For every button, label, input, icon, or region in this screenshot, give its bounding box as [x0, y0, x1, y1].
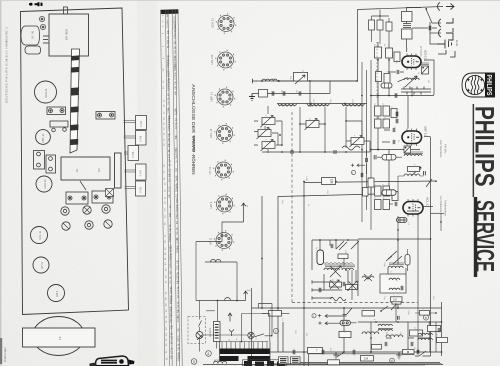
resistor R18 — [375, 200, 382, 210]
table column rules — [161, 10, 183, 366]
node y152 c — [324, 151, 326, 153]
node y152 b — [299, 151, 301, 153]
IF transformer box — [380, 274, 406, 293]
wire capsule leads — [340, 316, 357, 323]
core antenna transformer — [403, 24, 411, 28]
svg-text:443 kHz: 443 kHz — [444, 144, 448, 154]
node coil row c — [344, 103, 346, 105]
resistor R24 — [269, 311, 282, 317]
wire B+ right border — [441, 302, 443, 356]
tube socket UM4 pinout — [209, 194, 235, 215]
svg-text:2: 2 — [245, 205, 249, 207]
resistor R16 — [375, 186, 382, 196]
inductor L5 RF coil b — [307, 104, 329, 106]
svg-text:d: d — [391, 359, 393, 363]
tube U2 UBF11 IF-detector — [402, 126, 428, 146]
ANSCHLUESSE DER VALVO-ROEHREN caption — [191, 84, 196, 175]
svg-text:10p: 10p — [169, 227, 172, 232]
circled terminal d — [390, 358, 395, 363]
trimmer C31 band a — [257, 128, 272, 140]
svg-text:UY 11: UY 11 — [40, 261, 44, 269]
inductor L3 input wave trap — [262, 79, 277, 81]
svg-text:W 19555: W 19555 — [419, 46, 423, 57]
antenna jack A1 — [438, 3, 454, 11]
node y152 d — [345, 151, 347, 153]
svg-text:UCL 11: UCL 11 — [209, 128, 213, 138]
wire U3 left stub — [389, 203, 393, 205]
node y322 d — [441, 321, 443, 323]
svg-text:0,25: 0,25 — [174, 75, 177, 80]
svg-text:UBF 11: UBF 11 — [210, 92, 214, 102]
node cap join — [278, 80, 280, 82]
svg-text:10p: 10p — [176, 177, 179, 182]
terminal fb row3 — [312, 296, 318, 299]
svg-text:2M: 2M — [323, 262, 325, 265]
node u3 bottom — [397, 229, 399, 231]
mounting bolts — [39, 16, 45, 29]
svg-text:zur Tonblende: zur Tonblende — [439, 196, 443, 213]
svg-text:0,3M: 0,3M — [168, 109, 171, 114]
tube socket UCH21 pinout — [210, 50, 236, 71]
svg-text:300: 300 — [167, 39, 170, 44]
tube UBF11 on chassis — [36, 130, 51, 145]
transformer T1 windings — [220, 342, 268, 349]
tube U3 UCL11 output — [403, 197, 430, 217]
node y322 c — [429, 321, 431, 323]
wire coil row bus — [277, 103, 367, 105]
capacitor C29 — [361, 173, 363, 177]
node x362 y95 — [361, 95, 363, 97]
svg-text:2M: 2M — [167, 20, 170, 23]
resistor R10 — [375, 106, 382, 116]
svg-text:0,3M: 0,3M — [170, 289, 173, 294]
small X box component — [106, 189, 114, 197]
tuning capacitor block — [61, 153, 121, 190]
terminal antenna input bar — [253, 79, 257, 83]
wire vertical x366 — [366, 70, 368, 210]
svg-text:1M: 1M — [176, 232, 179, 235]
ganged tuning dashed link — [291, 112, 293, 303]
resistor R28 — [410, 330, 423, 336]
wire x445 drop — [435, 322, 437, 352]
trimmer C30 wave trap — [261, 116, 276, 128]
capacitor C16 bottom — [417, 350, 419, 354]
capacitor C18 — [411, 342, 413, 346]
wire mid vertical x300 — [299, 107, 301, 152]
terminal strip blocks — [244, 361, 285, 366]
wire bottom edge double — [270, 364, 442, 366]
resistor R14 — [383, 119, 390, 128]
resistor R8 screen — [376, 72, 382, 82]
wire IF vertical b — [407, 96, 409, 129]
svg-text:20p: 20p — [170, 294, 173, 299]
svg-text:10p: 10p — [167, 54, 170, 59]
tube socket UCH21 pinout — [211, 13, 237, 34]
capacitor trimmer C2 box — [294, 73, 308, 82]
capacitor C26 — [299, 91, 301, 95]
wire left vertical x251 — [251, 288, 253, 366]
transformer T1 laminations — [220, 349, 271, 362]
capacitor C27 dual electrolytic — [397, 218, 408, 223]
circled terminal b — [423, 315, 428, 320]
wire bottom rail y362 — [300, 362, 440, 364]
resistor URDOX ballast — [214, 322, 221, 342]
node mid trim l — [299, 123, 301, 125]
wire corner x258','M258.3,308.4 v-4.9 — [258, 304, 272, 336]
dial lamp dashed box — [188, 317, 205, 344]
node x304 y196 — [303, 195, 305, 197]
capacitor C14 bottom — [322, 350, 324, 354]
svg-text:70p: 70p — [174, 80, 177, 85]
terminal fb row2 — [312, 288, 318, 291]
svg-text:1M: 1M — [329, 348, 331, 351]
svg-text:zum Sperrkreis: zum Sperrkreis — [439, 140, 443, 158]
core L11 — [389, 263, 404, 265]
svg-text:URDOX: URDOX — [208, 327, 212, 337]
capacitor C11 tone — [319, 288, 321, 292]
resistor R43 vertical capsule — [405, 255, 410, 266]
svg-text:25p: 25p — [169, 252, 172, 257]
resistor R11 — [383, 106, 390, 116]
svg-text:S 407: S 407 — [140, 120, 143, 127]
wire fb drop links — [330, 240, 356, 280]
svg-text:100p: 100p — [176, 207, 179, 213]
wire x237 drop — [236, 262, 238, 301]
rectifier tube AZ1 (side view) — [21, 26, 40, 45]
terminal fb row1 — [312, 280, 318, 283]
inductor L7 osc coil — [404, 78, 419, 80]
svg-text:25p: 25p — [176, 203, 179, 208]
wire vertical x362 — [361, 62, 363, 222]
wire socket heater down — [195, 242, 197, 301]
switch S10 top — [343, 308, 353, 315]
wire af line — [370, 149, 420, 151]
node rail b — [277, 307, 279, 309]
ground bottom 2 — [396, 352, 402, 359]
wire left vertical x278 — [277, 196, 279, 352]
tube socket UY11 pinout — [208, 160, 234, 181]
node rail e — [397, 307, 399, 309]
node fb a — [335, 239, 337, 241]
node det frame — [430, 238, 432, 240]
coil bracket pair — [34, 121, 69, 173]
switch S4 — [386, 251, 397, 261]
node x371 y150 — [370, 149, 372, 151]
inductor heater winding b — [211, 259, 221, 262]
resistor R47 segmented capsule — [382, 155, 396, 161]
wire earth lead — [430, 22, 437, 44]
trimmer capacitors row 1 — [61, 205, 110, 215]
switch S3a — [336, 241, 347, 250]
tube UCL11 on chassis — [31, 227, 48, 244]
wire r42 leads — [415, 312, 436, 314]
switch S12 osc — [398, 78, 408, 82]
svg-text:300: 300 — [175, 167, 178, 172]
dial lamp LP1 — [196, 332, 203, 340]
wire feedback inner a — [311, 240, 313, 270]
resistor R34 fb — [338, 254, 348, 259]
wire row y152 — [262, 151, 370, 153]
wire antenna lead-in — [256, 7, 443, 82]
node s11 — [380, 310, 382, 312]
terminal TA plus b — [318, 321, 321, 324]
node x237 heater — [236, 300, 238, 302]
capacitor C3 input — [272, 91, 274, 95]
node x366 y196 — [366, 195, 368, 197]
table header band — [161, 9, 179, 14]
svg-text:2M: 2M — [405, 48, 407, 51]
chassis outline — [21, 8, 129, 315]
node y152 a — [281, 151, 283, 153]
tube socket UF11 pinout — [209, 230, 235, 251]
dotted bandswitch link — [376, 42, 378, 100]
wire det row2 links — [398, 176, 424, 194]
capacitor C23 — [393, 140, 395, 144]
wire T1 secondary right — [269, 351, 271, 353]
node 1M right — [335, 181, 337, 183]
resistor R29 — [428, 326, 441, 332]
wire trap to trimmer — [279, 80, 357, 82]
node a2 — [388, 59, 390, 61]
svg-text:UCH 21: UCH 21 — [43, 179, 47, 189]
svg-text:Tonabnehmer: Tonabnehmer — [444, 200, 448, 216]
electrolytic capacitor can — [25, 46, 41, 54]
svg-text:0,1M: 0,1M — [177, 317, 180, 322]
IF can plate with bolts — [47, 107, 66, 115]
capacitor C15 bottom — [353, 350, 355, 354]
node input coil right — [278, 80, 280, 82]
wire lamp box top link — [206, 310, 215, 312]
svg-text:2M: 2M — [305, 333, 307, 336]
svg-text:200p: 200p — [169, 236, 172, 242]
dashed link horizontal — [292, 302, 418, 304]
switch S7 — [415, 351, 426, 356]
wire trim to coil — [265, 106, 268, 153]
antenna jack A3 — [439, 29, 453, 40]
wire L1 top to switch — [407, 8, 422, 12]
resistor R6 osc anode — [386, 48, 393, 58]
node bt3 — [370, 351, 372, 353]
Philips shield emblem — [462, 73, 495, 97]
SERVICE wordmark (rotated) — [470, 200, 500, 272]
wire mixer vertical a — [377, 42, 379, 95]
svg-text:10p: 10p — [178, 346, 181, 351]
osc coil arrow — [405, 76, 417, 87]
wire terminal2 drop — [245, 299, 247, 301]
svg-text:500p: 500p — [168, 117, 171, 123]
wire osc leg — [411, 87, 413, 95]
svg-text:0,1M: 0,1M — [167, 23, 170, 28]
power transformer block on chassis — [49, 7, 89, 56]
terminal plus arrow AF — [351, 164, 365, 167]
svg-text:600: 600 — [214, 359, 219, 363]
IF can side-view column right of chassis — [124, 116, 147, 197]
wire L2 down to mixer grid — [406, 39, 408, 45]
resistor R21 vertical — [317, 250, 324, 265]
svg-text:2M: 2M — [169, 179, 172, 182]
node bottom a — [303, 351, 305, 353]
switch S3b — [351, 241, 359, 249]
wire bottom edge y364 — [203, 364, 443, 366]
arrow across fb coils — [330, 266, 341, 277]
mains plug arrow up — [228, 313, 232, 322]
circled terminal 3 — [191, 359, 197, 365]
terminal TA circled — [312, 314, 316, 319]
capacitor C13 bottom — [293, 350, 295, 354]
node trim drop — [281, 144, 283, 146]
dial pointer strip with hatched bands — [70, 49, 80, 153]
svg-text:0,25: 0,25 — [177, 265, 180, 270]
svg-text:S 406: S 406 — [140, 135, 143, 142]
switch S5 — [393, 256, 402, 264]
svg-text:100p: 100p — [170, 256, 173, 262]
trimmer C33 MW pad — [305, 119, 320, 131]
core zigzag L5 — [308, 105, 328, 107]
svg-text:150: 150 — [170, 318, 173, 323]
terminal 2b arrow upper — [242, 203, 249, 222]
wire left vertical x304 — [303, 181, 305, 366]
resistor R17 — [383, 186, 390, 196]
inductor L21 IF sec — [404, 146, 411, 153]
node fb b — [319, 239, 321, 241]
resistor R7 — [394, 52, 400, 62]
node fb coil — [345, 269, 347, 271]
resistor R42 — [420, 311, 430, 316]
core zigzag fb — [325, 263, 353, 265]
inductor L9 feedback — [324, 268, 339, 270]
svg-text:500p: 500p — [174, 65, 177, 71]
node IF a — [377, 149, 379, 151]
core zigzag L6 — [343, 105, 363, 107]
resistor R20 — [392, 192, 398, 201]
wire heater run y300.5 — [196, 300, 246, 302]
wire trim cluster stubs — [254, 121, 282, 145]
node right cluster — [345, 120, 347, 122]
resistor R46 segmented capsule — [381, 83, 392, 88]
resistor R36 top — [377, 20, 383, 30]
wire tube U1 plate right — [424, 60, 434, 95]
wire feedback frame — [312, 240, 358, 296]
svg-text:UCL 11: UCL 11 — [38, 230, 42, 239]
thick rule under SERVICE — [474, 197, 477, 277]
tube socket UCL11 pinout — [209, 123, 235, 144]
svg-text:0,3M: 0,3M — [174, 58, 177, 63]
wire jack A3 stub — [430, 32, 441, 34]
IF transformer plates row — [66, 191, 113, 204]
inductor L14 filter choke — [362, 332, 379, 334]
svg-text:PHILIPS: PHILIPS — [485, 75, 494, 96]
wire det verticals — [388, 240, 406, 308]
svg-text:70p: 70p — [168, 132, 171, 137]
bandswitch bars S2 — [401, 87, 431, 95]
resistor R13 — [375, 119, 382, 128]
wire urdox bottom — [216, 342, 218, 349]
fuse block 2 — [291, 357, 301, 364]
resistor R19 — [383, 200, 390, 210]
svg-text:5000: 5000 — [176, 197, 179, 203]
resistor R15 1M — [322, 178, 336, 185]
arrow TA a — [325, 314, 340, 317]
core zigzag L4 — [279, 105, 295, 107]
wire misc links — [386, 322, 430, 338]
wire 1M rail — [304, 181, 436, 183]
wire U3 top right vertical — [423, 137, 431, 356]
node x408 y352 — [407, 351, 409, 353]
capacitor C37 block — [259, 90, 268, 98]
ground input — [249, 94, 255, 101]
inductor L15 choke b — [386, 335, 403, 337]
wire mid vertical x325 — [324, 107, 326, 152]
bolt plate right of dial strip — [96, 112, 115, 120]
wire top cluster links — [372, 16, 390, 44]
wire det top — [358, 238, 431, 240]
svg-text:50p: 50p — [169, 232, 172, 237]
inductor L12 in box — [389, 278, 400, 280]
node avc a — [279, 134, 281, 136]
svg-text:UM 4: UM 4 — [209, 201, 213, 208]
switch S11 — [381, 306, 388, 311]
node y322 a — [375, 321, 377, 323]
svg-text:UCH 21: UCH 21 — [210, 54, 214, 64]
svg-text:70p: 70p — [177, 271, 180, 276]
wire top to antenna wire — [379, 10, 381, 16]
svg-text:2M: 2M — [301, 70, 303, 73]
node mixer join b — [388, 95, 390, 97]
trimmer capacitors row 2 — [62, 220, 112, 230]
volume pot arrow — [411, 167, 421, 176]
node y322 b — [397, 321, 399, 323]
svg-text:S 405: S 405 — [132, 151, 135, 158]
svg-text:1M: 1M — [174, 51, 177, 54]
wire U3 plate — [423, 206, 433, 208]
svg-text:5000: 5000 — [169, 246, 172, 252]
svg-text:1M: 1M — [168, 102, 171, 105]
resistor R44 1M box — [391, 297, 403, 302]
node x371 y95 — [370, 95, 372, 97]
node right margin — [440, 221, 442, 223]
wire terminal2b route — [196, 222, 244, 242]
core L16-17 — [378, 328, 393, 330]
svg-text:GR 4806: GR 4806 — [65, 28, 69, 40]
switch S8 — [337, 352, 344, 357]
wire x398 u3 down — [397, 216, 399, 240]
svg-text:100p: 100p — [383, 262, 385, 268]
svg-text:25p: 25p — [174, 24, 177, 29]
wire transformer right link — [241, 314, 269, 342]
resistor R45 bottom box — [328, 360, 340, 365]
inductor L22 S-curve — [342, 146, 360, 150]
node fb c — [347, 239, 349, 241]
svg-text:1M: 1M — [393, 298, 398, 302]
capacitor C25 — [397, 70, 399, 74]
transformer tap labels — [229, 339, 258, 342]
antenna jack A2 — [439, 18, 453, 32]
svg-text:500p: 500p — [170, 298, 173, 304]
svg-text:300: 300 — [169, 212, 172, 217]
svg-text:0,3M: 0,3M — [305, 176, 307, 181]
capacitor C40 — [424, 171, 426, 175]
svg-text:500p: 500p — [176, 247, 179, 253]
node fb r2 — [347, 289, 349, 291]
core L9L10 — [325, 265, 355, 267]
node coil row b — [310, 103, 312, 105]
svg-text:Ls: Ls — [58, 336, 62, 340]
inductor L2 antenna secondary — [402, 29, 413, 39]
wire left vertical x262 — [261, 196, 263, 308]
tube socket UBF11 pinout — [210, 87, 236, 108]
svg-text:0,5M: 0,5M — [168, 86, 171, 91]
node bt1 — [429, 337, 431, 339]
